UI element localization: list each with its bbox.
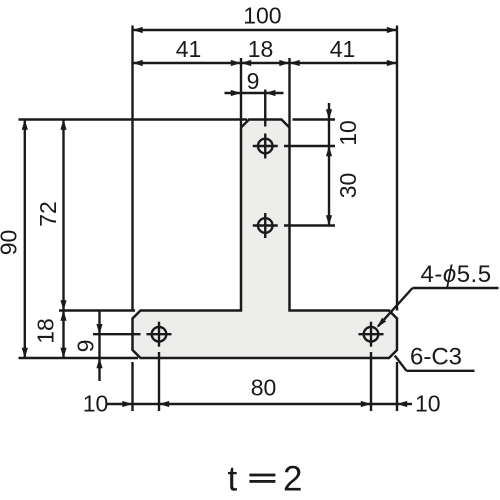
svg-text:10: 10	[415, 391, 441, 417]
thickness note t=2	[228, 460, 303, 499]
extension line plate left edge (bottom)	[131, 362, 133, 411]
svg-text:t: t	[228, 460, 238, 499]
extension line hole H3 center (bottom)	[158, 352, 160, 411]
svg-text:2: 2	[283, 460, 302, 499]
svg-text:18: 18	[248, 36, 274, 62]
extension line stem left edge	[240, 58, 242, 127]
extension line left edge (top)	[131, 26, 133, 311]
dimension line 72-18 (left)	[60, 120, 66, 359]
dimension line 80	[159, 401, 371, 407]
svg-text:9: 9	[73, 340, 99, 353]
extension line hole H1 center (right)	[284, 145, 335, 147]
svg-text:10: 10	[335, 120, 361, 146]
svg-text:80: 80	[251, 375, 277, 401]
dimension line 9 (base hole to bottom)	[96, 312, 102, 382]
leader line 6-C3	[395, 356, 475, 371]
svg-text:41: 41	[330, 36, 356, 62]
dimension line 10 (bottom left)	[107, 401, 169, 407]
hole H3 (left base hole)	[147, 322, 172, 347]
leader line 4-phi5.5	[377, 288, 499, 328]
extension line right edge (top)	[396, 26, 398, 311]
svg-text:6-C3: 6-C3	[410, 344, 462, 371]
dimension line 10 (bottom right)	[371, 401, 412, 407]
extension line plate top (right)	[293, 118, 336, 120]
dimension line 41-18-41	[133, 60, 398, 66]
svg-text:4-ϕ5.5: 4-ϕ5.5	[421, 261, 492, 288]
svg-text:41: 41	[176, 36, 202, 62]
svg-text:9: 9	[247, 68, 260, 94]
dimension line 10-30 (right)	[326, 103, 332, 226]
extension line plate bottom (left)	[19, 357, 139, 359]
hole H3 centerline extension left	[93, 333, 141, 335]
dimension line 100 (overall width)	[133, 27, 398, 33]
svg-text:10: 10	[83, 391, 109, 417]
stem centerline above plate	[264, 90, 266, 127]
hole H2 (lower stem hole)	[253, 213, 278, 238]
extension line plate top (left long)	[19, 118, 248, 120]
dimension line 90 (overall height)	[22, 120, 28, 359]
dimension line 9 (hole to stem edge)	[225, 90, 284, 96]
svg-text:18: 18	[33, 318, 59, 344]
extension line base top (left)	[59, 309, 135, 311]
T-shaped plate outline	[133, 120, 398, 359]
svg-text:100: 100	[243, 3, 281, 29]
extension line plate right edge (bottom)	[396, 362, 398, 411]
extension line stem right edge	[288, 58, 290, 127]
extension line hole H4 center (bottom)	[370, 352, 372, 411]
hole H1 (top stem hole)	[253, 134, 278, 159]
svg-text:72: 72	[35, 201, 61, 227]
hole H4 (right base hole)	[359, 322, 384, 347]
extension line hole H2 center (right)	[284, 224, 335, 226]
svg-text:30: 30	[335, 173, 361, 199]
svg-text:90: 90	[0, 230, 22, 256]
